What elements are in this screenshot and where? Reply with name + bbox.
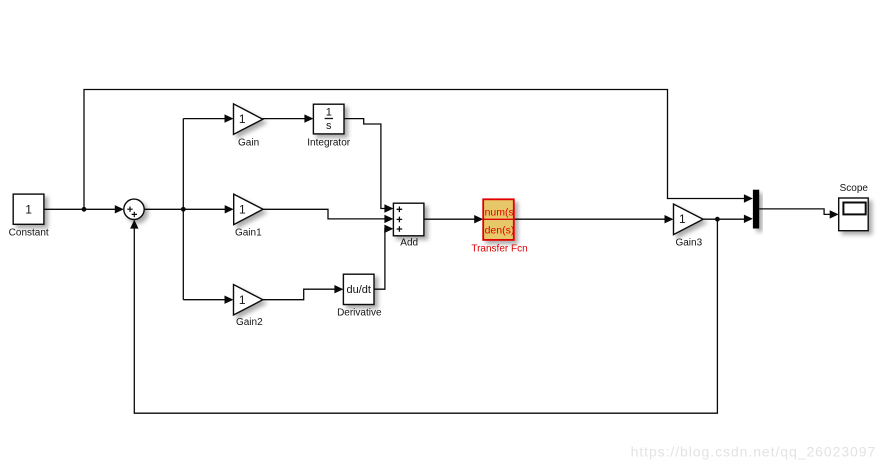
svg-text:1: 1 [239, 293, 246, 307]
svg-text:https://blog.csdn.net/qq_26023: https://blog.csdn.net/qq_26023097 [631, 443, 876, 459]
svg-text:1: 1 [25, 202, 32, 216]
svg-text:du/dt: du/dt [346, 284, 370, 296]
svg-text:Scope: Scope [840, 183, 869, 194]
svg-text:Gain1: Gain1 [235, 228, 262, 239]
svg-text:den(s): den(s) [485, 225, 515, 237]
svg-text:Gain2: Gain2 [236, 317, 263, 328]
svg-text:1: 1 [679, 212, 686, 226]
svg-text:Gain3: Gain3 [675, 238, 702, 249]
svg-text:s: s [326, 120, 332, 132]
svg-text:1: 1 [326, 107, 332, 119]
svg-text:Derivative: Derivative [337, 308, 382, 319]
svg-text:1: 1 [239, 202, 246, 216]
svg-text:num(s): num(s) [485, 206, 518, 218]
svg-text:Gain: Gain [238, 138, 259, 149]
svg-text:Integrator: Integrator [307, 138, 350, 149]
svg-text:1: 1 [239, 112, 246, 126]
svg-text:Add: Add [400, 238, 418, 249]
svg-text:Transfer Fcn: Transfer Fcn [471, 244, 527, 255]
svg-text:Constant: Constant [9, 228, 49, 239]
